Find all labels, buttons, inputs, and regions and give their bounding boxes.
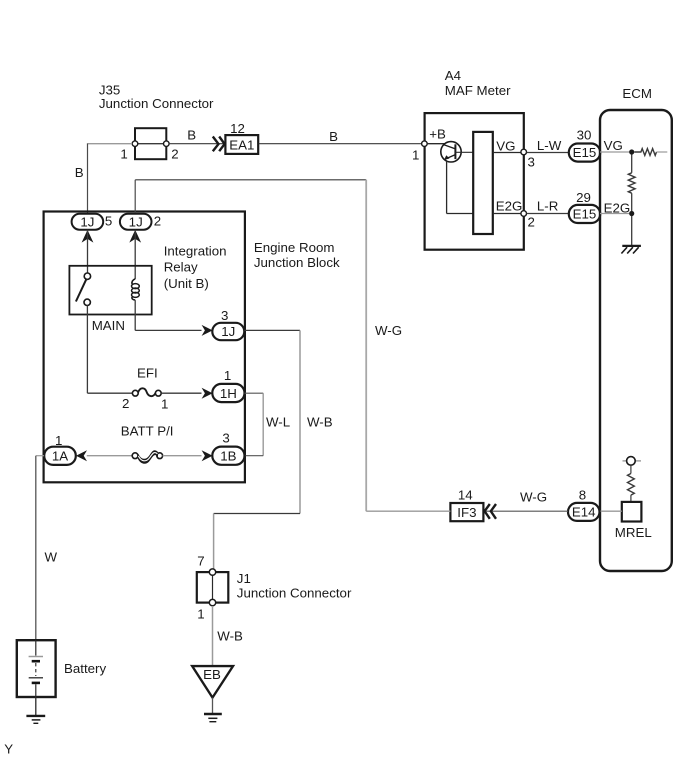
wire after resistor bbox=[657, 151, 668, 153]
connector IF3 pin 14 bbox=[450, 487, 496, 521]
svg-text:1: 1 bbox=[161, 396, 168, 411]
ground (battery) bbox=[26, 716, 45, 723]
wire W-G bottom to IF3 bbox=[366, 510, 450, 512]
svg-text:MAIN: MAIN bbox=[92, 318, 125, 333]
wire 1J2 down to relay coil bbox=[134, 230, 136, 279]
svg-text:(Unit B): (Unit B) bbox=[164, 276, 209, 291]
svg-text:2: 2 bbox=[171, 147, 178, 162]
svg-text:L-W: L-W bbox=[537, 138, 562, 153]
svg-text:Junction Connector: Junction Connector bbox=[99, 96, 214, 111]
svg-text:W-B: W-B bbox=[217, 629, 243, 644]
junction connector J1 bbox=[197, 553, 352, 621]
svg-text:L-R: L-R bbox=[537, 199, 558, 214]
svg-text:1: 1 bbox=[197, 606, 204, 621]
wire VG inside MAF bbox=[493, 152, 521, 154]
svg-text:3: 3 bbox=[222, 431, 229, 446]
svg-text:Integration: Integration bbox=[164, 243, 227, 258]
svg-text:2: 2 bbox=[122, 396, 129, 411]
wire E14 to MREL bbox=[600, 510, 622, 512]
engine room junction block bbox=[44, 212, 340, 483]
fuse EFI bbox=[122, 366, 168, 412]
svg-text:1: 1 bbox=[55, 433, 62, 448]
wire E2G inside MAF bbox=[493, 213, 521, 215]
MAF meter A4 bbox=[425, 68, 524, 250]
resistor vertical (VG to E2G) bbox=[628, 173, 635, 193]
connector E15 pin 29 bbox=[569, 190, 600, 223]
svg-text:1H: 1H bbox=[220, 386, 237, 401]
svg-text:J1: J1 bbox=[237, 571, 251, 586]
MAF pin 1 (+B) bbox=[422, 141, 428, 147]
svg-text:ECM: ECM bbox=[622, 86, 652, 101]
svg-text:1: 1 bbox=[224, 368, 231, 383]
resistor horizontal (VG) bbox=[634, 149, 656, 156]
relay coil bbox=[132, 279, 140, 300]
wire L-W bbox=[527, 152, 569, 154]
svg-text:1J: 1J bbox=[221, 324, 235, 339]
svg-text:2: 2 bbox=[528, 214, 535, 229]
wire W-G vertical bbox=[365, 180, 367, 511]
svg-text:BATT P/I: BATT P/I bbox=[121, 424, 174, 439]
svg-text:MREL: MREL bbox=[615, 525, 652, 540]
svg-text:7: 7 bbox=[197, 553, 204, 568]
transistor inside MAF bbox=[427, 142, 473, 214]
connector 1J pin 5 bbox=[72, 213, 113, 242]
wire W-G from IF3 to E14 bbox=[483, 510, 568, 512]
battery bbox=[17, 640, 107, 697]
svg-text:E15: E15 bbox=[573, 145, 597, 160]
relay coil box MREL bbox=[622, 502, 642, 522]
connector E15 pin 30 bbox=[569, 127, 600, 161]
wire fusible link to 1B bbox=[163, 455, 202, 457]
wire from relay switch down to EFI row bbox=[86, 306, 88, 394]
svg-text:VG: VG bbox=[604, 138, 623, 153]
svg-text:IF3: IF3 bbox=[457, 505, 476, 520]
wire 1J5 down to relay switch bbox=[87, 230, 89, 273]
svg-text:3: 3 bbox=[221, 308, 228, 323]
wire E2G inside ECM bbox=[600, 213, 629, 215]
MAF pin 3 (VG) bbox=[521, 149, 527, 155]
MAF pin 2 (E2G) bbox=[521, 211, 527, 217]
svg-text:29: 29 bbox=[576, 190, 591, 205]
svg-text:30: 30 bbox=[577, 127, 592, 142]
svg-text:1: 1 bbox=[412, 147, 419, 162]
wire VG inside ECM bbox=[600, 151, 629, 153]
svg-text:W-L: W-L bbox=[266, 415, 290, 430]
svg-text:8: 8 bbox=[579, 488, 586, 503]
relay switch contacts bbox=[76, 273, 91, 305]
wire vertical from W-G line to 1J pin 2 bbox=[134, 180, 136, 214]
svg-text:1J: 1J bbox=[80, 215, 94, 230]
integration relay (unit B) bbox=[69, 243, 226, 314]
junction dot E2G bbox=[629, 211, 634, 216]
svg-text:+B: +B bbox=[429, 126, 446, 141]
svg-text:E14: E14 bbox=[572, 504, 596, 519]
wire B from J35 to node at x87.5 bbox=[87, 143, 132, 145]
svg-text:E2G: E2G bbox=[496, 199, 523, 214]
connector 1B pin 3 bbox=[202, 431, 245, 465]
connector EA1 pin 12 bbox=[213, 121, 258, 154]
wire 1A to fusible link bbox=[87, 455, 132, 457]
svg-text:Junction Connector: Junction Connector bbox=[237, 586, 352, 601]
wire vertical B down to 1J pin 5 bbox=[87, 144, 89, 214]
svg-text:EB: EB bbox=[203, 667, 221, 682]
wire EFI to 1H bbox=[161, 392, 201, 394]
resistor vertical (MREL) bbox=[628, 474, 635, 496]
junction dot VG bbox=[629, 149, 634, 154]
wire B from J35 to EA1 bbox=[169, 143, 225, 145]
svg-text:VG: VG bbox=[496, 138, 515, 153]
wire W-B from J1 to EB bbox=[212, 606, 214, 666]
MAF inner sensing element bbox=[473, 132, 493, 234]
ECM box bbox=[600, 86, 672, 571]
svg-text:EFI: EFI bbox=[137, 366, 158, 381]
chassis ground (ECM) bbox=[621, 246, 641, 254]
connector 1H pin 1 bbox=[202, 368, 245, 402]
svg-text:B: B bbox=[329, 129, 338, 144]
wire W-B from 1J3 bbox=[244, 329, 300, 331]
wire vertical between dots bbox=[631, 155, 633, 173]
connector 1J pin 3 bbox=[202, 308, 245, 340]
connector 1J pin 2 bbox=[120, 213, 161, 242]
wire B from EA1 to MAF meter bbox=[259, 143, 421, 145]
wire down to ground bbox=[631, 216, 633, 245]
svg-text:Y: Y bbox=[4, 742, 13, 757]
svg-text:12: 12 bbox=[230, 121, 245, 136]
svg-text:1J: 1J bbox=[129, 215, 143, 230]
svg-text:5: 5 bbox=[105, 213, 112, 228]
wire battery to ground bbox=[35, 697, 37, 715]
svg-text:EA1: EA1 bbox=[229, 137, 254, 152]
svg-text:2: 2 bbox=[154, 213, 161, 228]
ground EB bbox=[192, 666, 233, 722]
svg-text:1B: 1B bbox=[220, 448, 236, 463]
svg-text:Engine Room: Engine Room bbox=[254, 240, 335, 255]
svg-text:MAF Meter: MAF Meter bbox=[445, 83, 511, 98]
svg-text:W: W bbox=[45, 550, 58, 565]
svg-text:W-G: W-G bbox=[375, 323, 402, 338]
junction connector J35 bbox=[99, 83, 214, 162]
svg-text:W-G: W-G bbox=[520, 489, 547, 504]
svg-text:14: 14 bbox=[458, 487, 473, 502]
svg-text:Relay: Relay bbox=[164, 259, 198, 274]
svg-text:B: B bbox=[75, 165, 84, 180]
wire W-G horizontal top bbox=[135, 179, 366, 181]
connector 1A pin 1 bbox=[44, 433, 87, 465]
connector E14 pin 8 bbox=[568, 488, 600, 521]
MREL terminal circle bbox=[623, 457, 642, 466]
wire W from 1A to battery bbox=[36, 455, 44, 457]
svg-text:Battery: Battery bbox=[64, 661, 106, 676]
fusible link BATT P/I bbox=[132, 451, 162, 464]
svg-text:E15: E15 bbox=[573, 207, 597, 222]
wire from relay coil down and right to 1J pin 3 bbox=[134, 300, 136, 330]
svg-text:1A: 1A bbox=[52, 449, 68, 464]
wire W-L from 1H to 1B bbox=[245, 392, 264, 394]
wire EFI row left bbox=[87, 392, 132, 394]
svg-text:Junction Block: Junction Block bbox=[254, 255, 340, 270]
svg-text:W-B: W-B bbox=[307, 415, 333, 430]
svg-text:3: 3 bbox=[528, 155, 535, 170]
wire below terminal bbox=[630, 465, 632, 473]
svg-text:1: 1 bbox=[120, 147, 127, 162]
wire L-R bbox=[527, 213, 569, 215]
svg-text:B: B bbox=[187, 128, 196, 143]
svg-text:A4: A4 bbox=[445, 68, 461, 83]
